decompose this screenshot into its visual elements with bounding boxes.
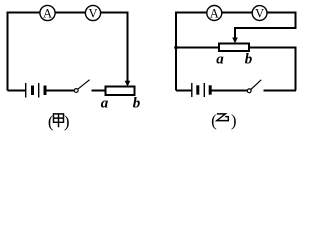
ammeter A1 bbox=[40, 5, 55, 20]
bottom wire from left corner to battery bbox=[8, 90, 26, 92]
svg-text:b: b bbox=[245, 52, 253, 68]
svg-text:A: A bbox=[210, 7, 219, 21]
svg-text:a: a bbox=[101, 96, 109, 112]
rheostat R2 body bbox=[219, 44, 249, 52]
wire between A1 and V1 bbox=[55, 12, 85, 14]
wire top-left: left vertical + top run to ammeter bbox=[8, 13, 40, 91]
wire between A2 and V2 bbox=[222, 12, 252, 14]
switch S2 bbox=[247, 80, 261, 93]
battery B2 bbox=[192, 83, 210, 97]
wire from switch to bottom-right corner bbox=[264, 90, 297, 92]
wire from left vertical to rheostat R2 left end bbox=[176, 47, 219, 49]
svg-text:V: V bbox=[88, 7, 97, 21]
svg-text:): ) bbox=[64, 112, 70, 131]
switch S1 bbox=[74, 80, 89, 93]
wire from switch to rheostat R1 left end bbox=[92, 90, 106, 92]
svg-text:a: a bbox=[216, 52, 224, 68]
wire from V2 right, down, and left to slider feed bbox=[235, 13, 296, 39]
wire from V1 to top-right corner and down to slider bbox=[101, 13, 128, 82]
wire from battery to switch bbox=[47, 90, 75, 92]
ammeter A2 bbox=[207, 6, 222, 21]
rheostat R1 body bbox=[106, 87, 135, 96]
slider arrow of rheostat R1 bbox=[125, 81, 131, 87]
caption (甲) bbox=[48, 112, 70, 131]
battery B1 bbox=[26, 83, 45, 98]
wire top-left of 乙: left vertical + top run to ammeter bbox=[176, 13, 207, 91]
voltmeter V2 bbox=[252, 6, 267, 21]
svg-text:V: V bbox=[255, 7, 264, 21]
junction dot at left vertical bbox=[174, 46, 178, 50]
svg-text:A: A bbox=[43, 7, 52, 21]
bottom wire from left corner to battery bbox=[176, 90, 192, 92]
wire from rheostat R2 right end to right vertical down to bottom bbox=[249, 48, 296, 91]
slider arrow of rheostat R2 bbox=[232, 38, 238, 44]
caption (乙) bbox=[211, 111, 236, 130]
voltmeter V1 bbox=[85, 5, 100, 20]
svg-text:): ) bbox=[231, 111, 237, 130]
svg-text:b: b bbox=[133, 96, 141, 112]
wire from battery to switch bbox=[212, 90, 247, 92]
